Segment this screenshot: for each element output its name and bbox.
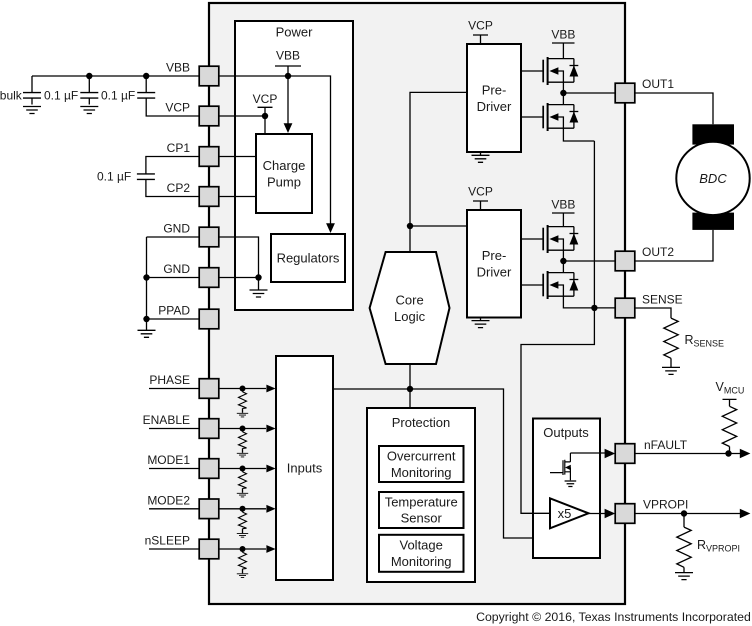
- wire gate M2: [521, 116, 543, 118]
- wire gate M4: [521, 284, 543, 286]
- svg-text:Pump: Pump: [267, 174, 301, 189]
- svg-text:nFAULT: nFAULT: [644, 438, 688, 452]
- svg-text:VBB: VBB: [276, 49, 300, 63]
- svg-text:VBB: VBB: [551, 27, 575, 41]
- capacitor 0.1uF (VCP): [137, 76, 155, 98]
- junction VBB Power: [285, 73, 291, 79]
- VBB tap over half-bridge 2: [552, 213, 575, 227]
- ground below PPAD: [138, 319, 156, 337]
- Protection block: [367, 408, 475, 582]
- junction SENSE: [591, 305, 597, 311]
- svg-text:RVPROPI: RVPROPI: [697, 538, 740, 554]
- svg-text:BDC: BDC: [699, 171, 727, 186]
- pin MODE1: [199, 459, 219, 479]
- Overcurrent Monitoring block: [379, 446, 464, 482]
- svg-text:CP1: CP1: [167, 141, 191, 155]
- svg-text:Power: Power: [276, 25, 314, 40]
- svg-text:Temperature: Temperature: [385, 494, 458, 509]
- Voltage Monitoring block: [379, 535, 464, 572]
- wire OUT1 to motor: [635, 93, 713, 124]
- svg-text:Inputs: Inputs: [287, 461, 323, 476]
- wire VBB internal to regulators drop: [219, 76, 331, 224]
- svg-text:Voltage: Voltage: [400, 538, 443, 553]
- pin VPROPI: [615, 504, 635, 524]
- wire pre-driver bus: [410, 92, 467, 252]
- junction VCP Power: [262, 113, 268, 119]
- motor brush top: [692, 124, 734, 144]
- VBB supply tap symbol (Power block): [275, 66, 301, 76]
- svg-text:OUT2: OUT2: [642, 245, 674, 259]
- motor BDC circle: [676, 142, 749, 215]
- svg-text:bulk: bulk: [0, 89, 23, 103]
- Charge Pump block: [256, 134, 312, 213]
- svg-text:Pre-: Pre-: [482, 248, 507, 263]
- Regulators block: [271, 234, 345, 282]
- svg-text:MODE2: MODE2: [147, 493, 190, 507]
- svg-text:GND: GND: [163, 222, 190, 236]
- svg-text:Copyright © 2016, Texas Instru: Copyright © 2016, Texas Instruments Inco…: [476, 610, 751, 624]
- svg-text:VBB: VBB: [166, 61, 190, 75]
- junction GND2 left: [143, 274, 149, 280]
- VCP tap over Pre-Driver 1: [473, 35, 488, 44]
- Pre-Driver 1 block: [467, 44, 521, 152]
- pin SENSE: [615, 298, 635, 318]
- Outputs block: [533, 419, 600, 559]
- input row MODE1: [149, 465, 276, 497]
- wire nFAULT internal: [570, 452, 605, 454]
- arrowhead nFAULT pin: [605, 449, 616, 459]
- junction VPROPI divider: [681, 510, 687, 516]
- chip body DRV887x: [209, 3, 625, 604]
- wire amp output: [589, 513, 606, 515]
- wire sense rail vertical: [593, 141, 595, 308]
- wire VCP internal: [219, 115, 265, 117]
- svg-text:0.1 µF: 0.1 µF: [101, 89, 135, 103]
- ground below Pre-Driver 2: [472, 318, 490, 328]
- capacitor bulk: [23, 76, 41, 114]
- svg-text:Monitoring: Monitoring: [391, 554, 452, 569]
- wire GND2 internal: [219, 277, 259, 279]
- Inputs block: [276, 356, 333, 580]
- input row nSLEEP: [149, 545, 276, 577]
- input row PHASE: wires, resistor, ground, arrow: [149, 385, 276, 417]
- wire M2 source to sense rail: [563, 128, 594, 141]
- junction GND internal: [255, 274, 261, 280]
- svg-text:VBB: VBB: [551, 197, 575, 211]
- wire CP2 external: [146, 179, 199, 196]
- arrow VBB to Charge Pump: [284, 76, 293, 133]
- svg-text:0.1 µF: 0.1 µF: [44, 89, 78, 103]
- svg-text:VCP: VCP: [165, 101, 190, 115]
- svg-text:nSLEEP: nSLEEP: [145, 534, 190, 548]
- VCP tap over Pre-Driver 2: [473, 201, 488, 210]
- svg-text:MODE1: MODE1: [147, 453, 190, 467]
- Pre-Driver 2 block: [467, 210, 521, 318]
- input row MODE2: [149, 505, 276, 537]
- svg-text:Pre-: Pre-: [482, 83, 507, 98]
- wire OUT1 to pin: [563, 92, 615, 94]
- pin OUT1: [615, 83, 635, 103]
- amplifier x5: [550, 498, 589, 528]
- svg-text:VMCU: VMCU: [716, 380, 745, 396]
- wire GND left bus: [146, 237, 148, 319]
- transistor M4 (low-side FET bridge2): [543, 271, 578, 299]
- pin nFAULT: [615, 444, 635, 464]
- pin GND1: [199, 227, 219, 247]
- wire OUT1 mid node: [562, 82, 564, 104]
- wire Inputs to Outputs: [333, 389, 533, 538]
- ground below R_SENSE: [662, 358, 680, 374]
- Temperature Sensor block: [379, 492, 464, 528]
- transistor M1 (high-side FET bridge1): [543, 57, 578, 85]
- Power block: [235, 21, 353, 310]
- ground below Pre-Driver 1: [472, 152, 490, 162]
- svg-text:Logic: Logic: [394, 309, 426, 324]
- junction core-inputs wire: [407, 386, 413, 392]
- wire CP1 external: [146, 157, 199, 174]
- svg-text:Charge: Charge: [263, 158, 306, 173]
- svg-text:Sensor: Sensor: [401, 511, 443, 526]
- junction OUT1: [560, 90, 566, 96]
- wire to Pre-Driver 2: [410, 225, 467, 227]
- wire OUT2 to pin: [563, 260, 615, 262]
- wire pullup to nFAULT: [729, 447, 730, 454]
- pin ENABLE: [199, 419, 219, 439]
- svg-text:RSENSE: RSENSE: [685, 333, 725, 349]
- wire PPAD left: [147, 318, 200, 320]
- VCP supply tap symbol (Power block): [258, 107, 273, 134]
- svg-text:x5: x5: [558, 506, 572, 521]
- wire VPROPI external: [635, 513, 741, 515]
- input row ENABLE: [149, 425, 276, 457]
- svg-text:Driver: Driver: [477, 99, 512, 114]
- svg-text:Core: Core: [396, 293, 424, 308]
- resistor R_SENSE: [664, 318, 678, 358]
- svg-text:0.1 µF: 0.1 µF: [97, 170, 131, 184]
- svg-text:SENSE: SENSE: [642, 293, 683, 307]
- wire OUT2 mid node: [562, 250, 564, 272]
- ground in Power block: [250, 278, 268, 298]
- wire gate M1: [521, 70, 543, 72]
- svg-text:VCP: VCP: [468, 185, 493, 199]
- resistor R_VPROPI: [677, 514, 691, 568]
- pin CP2: [199, 187, 219, 207]
- capacitor 0.1uF (VBB): [80, 76, 98, 114]
- wire VBB external (bulk caps to VBB pin): [32, 75, 199, 77]
- wire nFAULT external: [635, 453, 741, 455]
- transistor M2 (low-side FET bridge1): [543, 103, 578, 131]
- svg-text:OUT1: OUT1: [642, 77, 674, 91]
- pin VCP: [199, 106, 219, 126]
- junction on VBB wire at cap2: [86, 73, 92, 79]
- svg-text:Regulators: Regulators: [277, 251, 340, 266]
- wire Core Logic to Protection: [409, 364, 411, 408]
- pin MODE2: [199, 499, 219, 519]
- junction on VBB wire at cap3: [143, 73, 149, 79]
- svg-text:Protection: Protection: [392, 415, 451, 430]
- svg-text:Driver: Driver: [477, 265, 512, 280]
- svg-text:PHASE: PHASE: [149, 373, 190, 387]
- wire SENSE external: [635, 308, 671, 318]
- V_MCU supply tap: [723, 399, 737, 406]
- svg-text:VCP: VCP: [468, 19, 493, 33]
- svg-text:Outputs: Outputs: [543, 425, 589, 440]
- pin OUT2: [615, 251, 635, 271]
- svg-text:VPROPI: VPROPI: [643, 497, 688, 511]
- pin nSLEEP: [199, 539, 219, 559]
- motor brush bottom: [692, 213, 734, 230]
- wire VCP cap to VCP pin: [146, 98, 199, 116]
- wire CP1 internal: [219, 156, 256, 158]
- Core Logic hexagon: [370, 252, 450, 364]
- wire gate M3: [521, 238, 543, 240]
- arrowhead nFAULT external: [740, 449, 751, 459]
- pin VBB: [199, 66, 219, 86]
- ground below R_VPROPI: [675, 567, 693, 579]
- svg-text:GND: GND: [163, 262, 190, 276]
- arrowhead VPROPI external: [740, 509, 751, 519]
- svg-text:Overcurrent: Overcurrent: [387, 449, 456, 464]
- svg-text:Monitoring: Monitoring: [391, 465, 452, 480]
- VBB tap over half-bridge 1: [552, 43, 575, 59]
- svg-text:ENABLE: ENABLE: [143, 413, 190, 427]
- junction OUT2: [560, 258, 566, 264]
- wire GND1 internal: [219, 237, 259, 278]
- pin PHASE: [199, 379, 219, 399]
- wire CP2 internal: [219, 196, 256, 198]
- wire SENSE to x5 amp: [521, 308, 594, 513]
- junction nFAULT pullup: [725, 450, 731, 456]
- wire OUT2 to motor: [635, 230, 713, 261]
- pin CP1: [199, 147, 219, 167]
- junction pre-driver bus: [407, 223, 413, 229]
- pin GND2: [199, 268, 219, 288]
- arrowhead VPROPI pin: [605, 509, 616, 519]
- wire GND1 left: [147, 236, 200, 238]
- transistor M3 (high-side FET bridge2): [543, 225, 578, 253]
- junction PPAD left: [143, 316, 149, 322]
- resistor pullup to V_MCU: [722, 406, 736, 446]
- svg-text:PPAD: PPAD: [158, 304, 190, 318]
- svg-text:VCP: VCP: [253, 92, 278, 106]
- pin PPAD: [199, 309, 219, 329]
- arrowhead into Regulators: [326, 223, 335, 233]
- wire M4 source to SENSE pin: [563, 296, 615, 308]
- open-drain FET (nFAULT driver): [550, 453, 576, 487]
- svg-text:CP2: CP2: [167, 181, 191, 195]
- wire GND2 left: [147, 277, 200, 279]
- capacitor 0.1uF (CP1-CP2): [137, 174, 155, 180]
